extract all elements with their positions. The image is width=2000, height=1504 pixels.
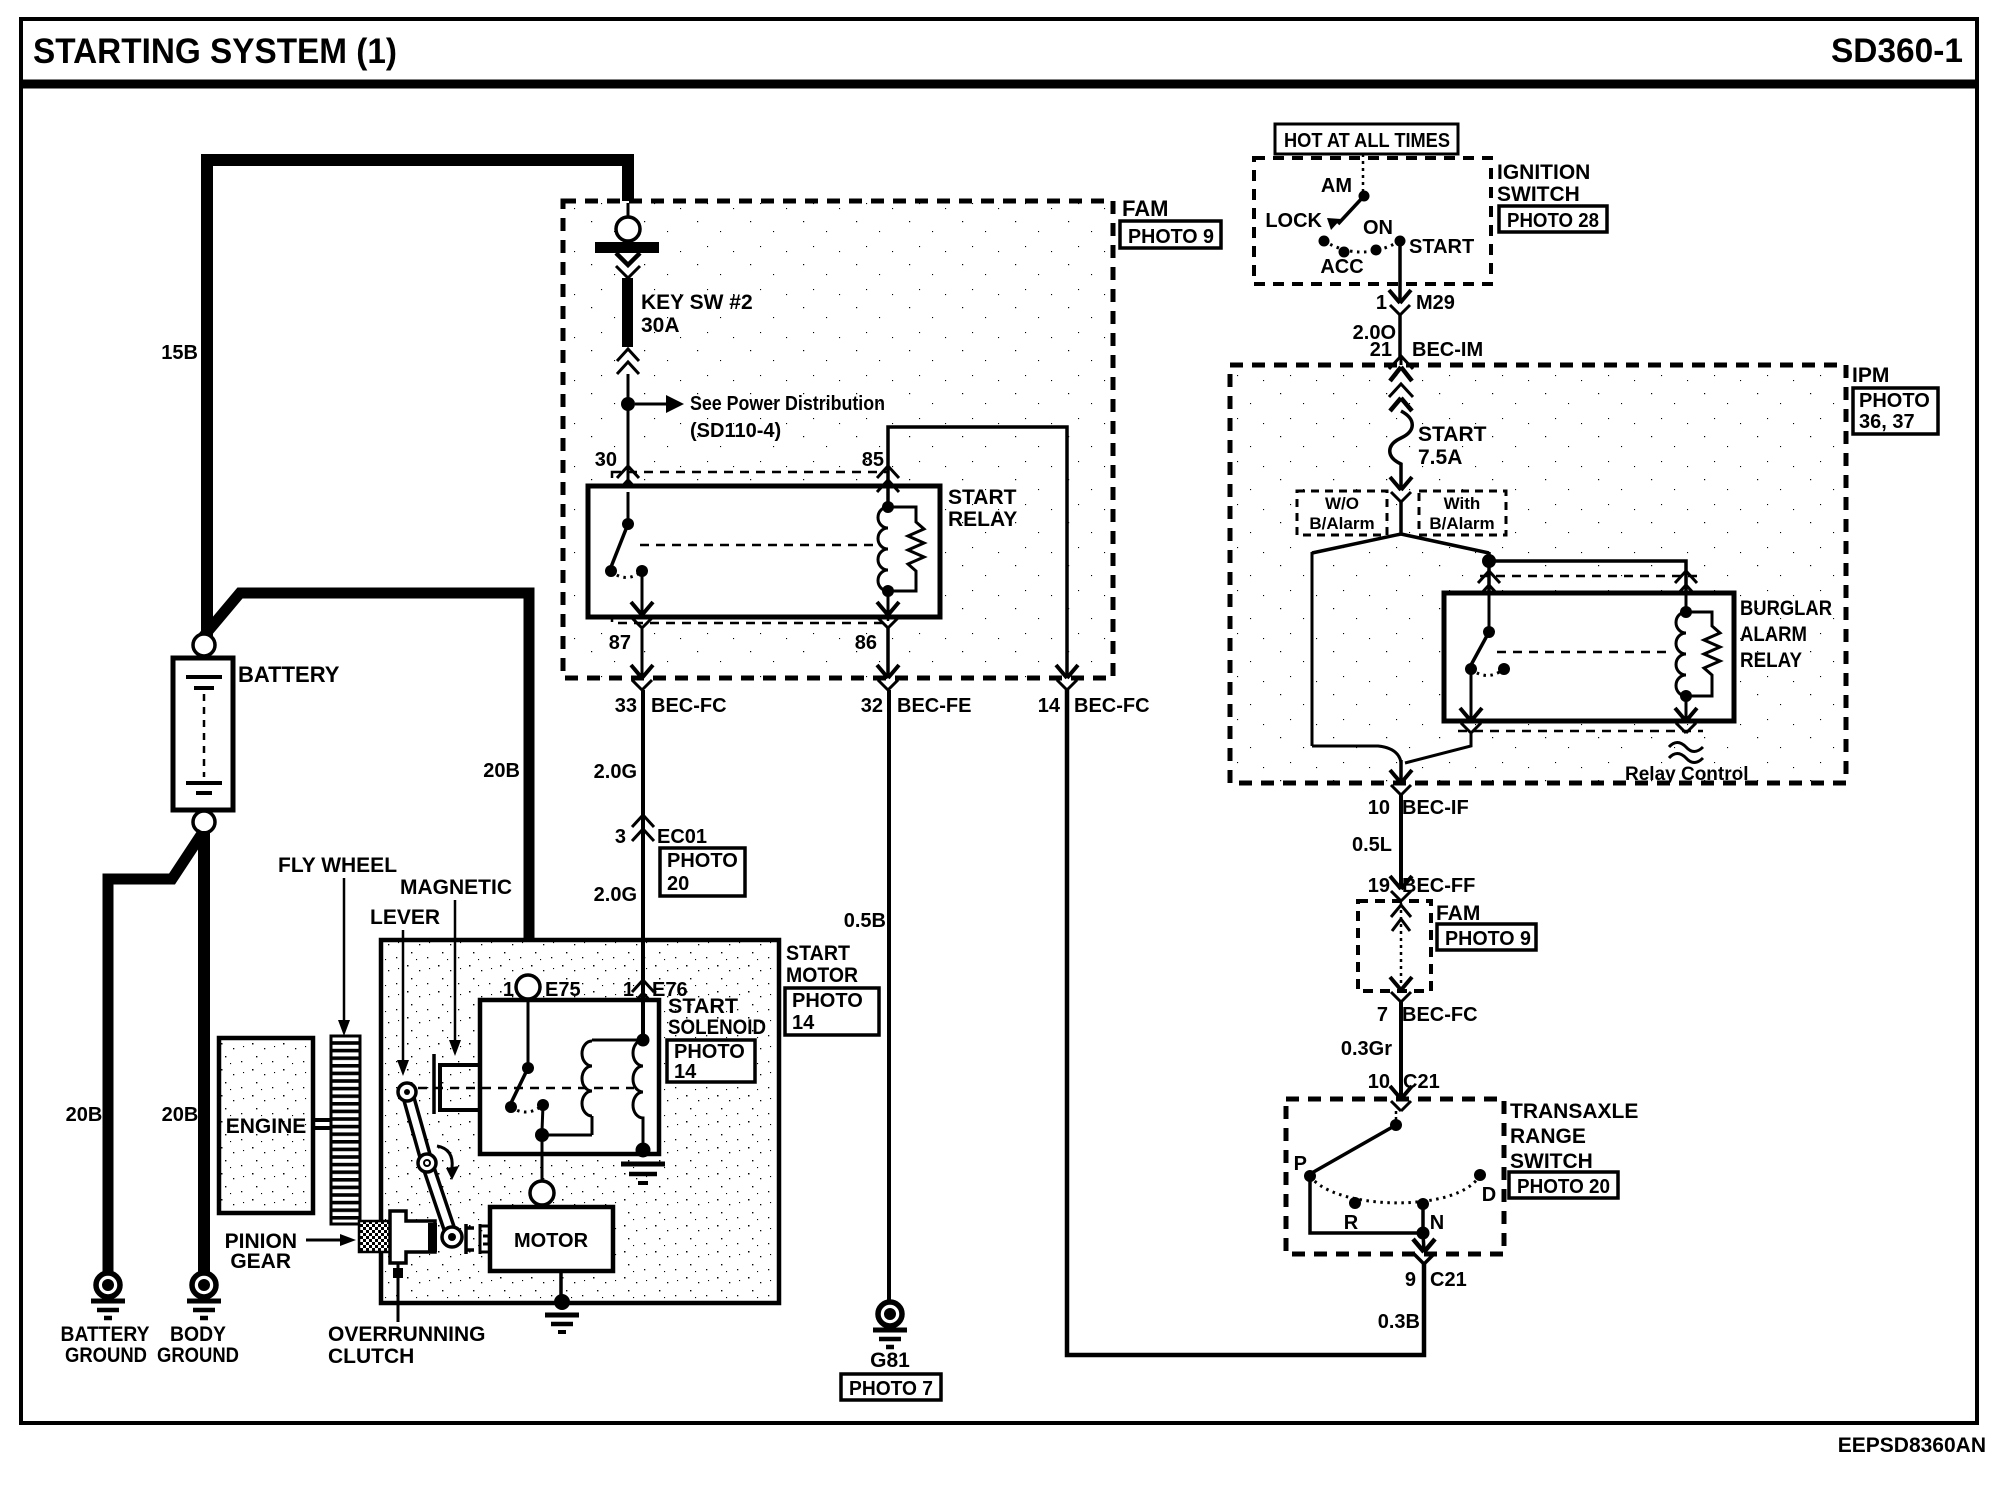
connector burglar switch out arrow [1460,708,1482,721]
wire motor to ground [559,1271,563,1296]
svg-text:PHOTO 9: PHOTO 9 [1445,928,1531,950]
wire 0.5L [1399,795,1403,888]
svg-text:1: 1 [623,979,634,1001]
svg-text:1: 1 [503,979,514,1001]
relay control continuation squiggle [1669,743,1703,763]
relay coil [878,507,888,591]
lever rotation arrow [437,1146,459,1180]
svg-text:SWITCH: SWITCH [1510,1150,1593,1173]
svg-text:EEPSD8360AN: EEPSD8360AN [1838,1434,1986,1457]
svg-text:GROUND: GROUND [65,1344,147,1367]
connector E75 [516,975,540,999]
svg-text:TRANSAXLE: TRANSAXLE [1510,1100,1638,1123]
svg-text:SOLENOID: SOLENOID [668,1016,766,1039]
start solenoid box [480,1000,659,1154]
svg-text:9: 9 [1405,1269,1416,1291]
connector 7 BEC-FC chevron [1391,992,1411,1002]
svg-text:OVERRUNNING: OVERRUNNING [328,1323,486,1346]
svg-text:PHOTO 7: PHOTO 7 [849,1378,933,1400]
ignition switch box [1254,158,1491,284]
fly wheel [331,1036,360,1224]
wire With branch [1487,552,1491,558]
wire 15B battery to key switch (thick) [207,160,628,636]
svg-text:See Power Distribution: See Power Distribution [690,393,885,415]
photo ref box PHOTO 36 37 [1853,388,1938,434]
wire 2.0G to E76 [641,690,645,1040]
ignition positions dotted arc [1324,241,1400,252]
svg-text:RELAY: RELAY [1740,649,1802,672]
leader arrow see power distribution [635,395,684,413]
svg-text:2.0G: 2.0G [594,884,637,906]
transaxle selector blade [1310,1125,1396,1174]
svg-text:GROUND: GROUND [157,1344,239,1367]
connector pin 87 chevron [632,618,652,628]
connector burglar coil out chevron [1676,723,1696,733]
option box W/O B/Alarm [1297,491,1387,535]
node solenoid contact right [537,1099,549,1111]
connector chevron below bar [616,266,640,278]
motor M [490,1207,613,1271]
node burglar feed junction [1482,554,1496,568]
svg-text:PHOTO: PHOTO [1859,390,1930,412]
svg-text:PHOTO 9: PHOTO 9 [1128,226,1214,248]
svg-text:FAM: FAM [1122,196,1168,221]
burglar relay connector dashed bottom [1458,730,1703,733]
fuse exit arrow [1390,477,1412,490]
relay resistor [888,507,924,591]
node ON position [1371,245,1382,256]
wire 87 to BEC-FC 33 [641,628,644,677]
mechanical link dashed (solenoid) [418,1087,634,1090]
clutch output collar [466,1224,489,1254]
node motor terminal [530,1181,554,1205]
burglar alarm relay box [1444,593,1734,721]
svg-text:START: START [1409,236,1474,258]
connector pin 86 chevron [878,618,898,628]
svg-text:Relay Control: Relay Control [1625,764,1749,785]
node battery negative terminal [193,811,215,833]
photo ref box PHOTO 14 (start motor) [785,988,879,1035]
wire P to N link [1310,1176,1424,1233]
svg-text:AM: AM [1321,175,1352,197]
svg-text:(SD110-4): (SD110-4) [690,420,781,442]
svg-text:BEC-FF: BEC-FF [1402,875,1475,897]
photo ref box PHOTO 14 (solenoid) [667,1040,755,1083]
svg-text:ACC: ACC [1320,256,1363,278]
svg-text:E75: E75 [545,979,581,1001]
FAM module box [563,201,1113,678]
connector pin 30 chevrons [617,466,639,492]
burglar switch blade [1471,632,1489,665]
node relay contact left [605,565,617,577]
connector E76 chevrons [632,980,654,1005]
leader arrow magnetic [449,900,461,1056]
burglar relay resistor [1686,612,1720,696]
svg-text:IGNITION: IGNITION [1497,161,1590,184]
ground solenoid ground [621,1164,665,1183]
connector 33 BEC-FC chevron [632,680,652,690]
connector pin 87 arrow [631,602,653,615]
svg-text:0.5B: 0.5B [844,910,886,932]
hold-in coil [633,1040,643,1146]
ground battery ground [91,1273,125,1318]
node ACC position [1339,247,1350,258]
wire relay pin30 internal [627,492,630,520]
node D position [1474,1169,1486,1181]
svg-text:GEAR: GEAR [230,1250,291,1273]
wire 20B to battery ground (thick) [108,832,203,1272]
svg-text:BODY: BODY [170,1323,226,1346]
svg-text:1: 1 [1376,292,1387,314]
wire burglar switch feed [1487,561,1491,593]
label HOT AT ALL TIMES [1275,124,1458,154]
wire N junction down [1423,1233,1424,1251]
svg-text:20B: 20B [483,760,520,782]
wire 20B to body ground (thick) [198,831,210,1272]
svg-text:B/Alarm: B/Alarm [1429,514,1494,533]
burglar mechanical dashed link [1497,651,1666,654]
svg-text:30: 30 [595,449,617,471]
connector 9 C21 chevron [1414,1254,1434,1264]
transaxle range switch box [1286,1099,1504,1254]
svg-text:START: START [668,995,738,1018]
svg-text:14: 14 [674,1061,697,1083]
node solenoid output junction [535,1128,549,1142]
burglar relay connector dashed top [1480,575,1698,578]
svg-text:D: D [1482,1184,1496,1206]
transaxle positions dotted arc [1310,1175,1480,1203]
svg-text:PHOTO: PHOTO [674,1041,745,1063]
connector 3 EC01 chevrons [632,815,654,841]
connector arrow below bar [616,253,640,265]
svg-text:RELAY: RELAY [948,508,1017,531]
svg-text:P: P [1294,1153,1307,1175]
connector 10 C21 arrow [1390,1086,1412,1099]
node burglar switch pivot [1483,626,1495,638]
connector 10 BEC-IF arrow [1390,770,1412,783]
svg-text:SWITCH: SWITCH [1497,183,1580,206]
svg-text:START: START [948,486,1017,509]
svg-text:33: 33 [615,695,637,717]
svg-text:C21: C21 [1430,1269,1467,1291]
connector 1 M29 arrow [1389,290,1411,303]
svg-text:7: 7 [1377,1004,1388,1026]
node N junction [1417,1227,1430,1240]
wire key switch feed [627,203,630,217]
svg-text:EC01: EC01 [657,826,707,848]
svg-text:19: 19 [1368,875,1390,897]
svg-text:KEY SW #2: KEY SW #2 [641,291,753,314]
ground body ground [187,1273,221,1318]
wire FAM pass-through dotted [1400,903,1403,989]
wire branch merge [1312,746,1401,762]
svg-text:ENGINE: ENGINE [226,1115,307,1138]
node N position [1417,1198,1429,1210]
fuse KEY SW #2 30A element [622,278,633,347]
svg-text:20: 20 [667,873,689,895]
node burglar coil top [1680,606,1692,618]
pull-in coil [582,1041,592,1135]
svg-text:FLY WHEEL: FLY WHEEL [278,854,397,877]
photo ref box PHOTO 20 (EC01) [660,848,745,896]
wire 20B battery to E75 (thick) [203,593,529,977]
svg-text:BATTERY: BATTERY [61,1323,150,1346]
connector burglar switch pin chevrons [1478,571,1500,597]
solenoid switch blade [511,1068,528,1103]
wire E76 into solenoid [642,1003,645,1040]
node relay coil top [882,501,894,513]
connector 14 BEC-FC chevron [1057,680,1077,690]
svg-text:86: 86 [855,632,877,654]
svg-text:MOTOR: MOTOR [786,964,858,987]
svg-text:3: 3 [615,826,626,848]
svg-text:N: N [1430,1212,1444,1234]
svg-text:85: 85 [862,449,884,471]
svg-text:BEC-FC: BEC-FC [1074,695,1150,717]
wire relay 86 internal [887,591,890,614]
connector burglar coil out arrow [1675,708,1697,721]
wire coil top link [592,1039,643,1042]
node solenoid switch pivot [522,1062,534,1074]
wire E75 into solenoid switch [527,999,530,1064]
photo ref box PHOTO 7 (G81) [841,1374,941,1400]
node burglar contact left [1465,663,1477,675]
wire burglar coil internal top [1685,593,1688,610]
svg-text:G81: G81 [870,1349,910,1372]
svg-text:87: 87 [609,632,631,654]
svg-text:ON: ON [1363,217,1393,239]
svg-text:20B: 20B [162,1104,199,1126]
lever arm [398,1083,462,1247]
svg-text:BEC-IM: BEC-IM [1412,339,1483,361]
wire W/O branch [1311,552,1314,746]
svg-text:7.5A: 7.5A [1418,446,1462,469]
start motor assembly box [381,940,779,1303]
svg-text:10: 10 [1368,1071,1390,1093]
svg-text:20B: 20B [66,1104,103,1126]
relay mechanical dashed link [640,544,876,547]
svg-text:HOT AT ALL TIMES: HOT AT ALL TIMES [1284,130,1450,152]
start relay box [588,486,940,617]
leader arrow lever [397,930,409,1076]
magnetic plunger [434,1054,494,1114]
svg-text:LOCK: LOCK [1265,210,1322,232]
solenoid contact dotted arc [511,1105,543,1112]
connector 33 BEC-FC arrow [631,665,653,678]
svg-text:PHOTO: PHOTO [792,990,863,1012]
fuse START 7.5A [1390,411,1413,489]
svg-text:FAM: FAM [1436,902,1480,925]
wire branch split [1312,502,1489,553]
svg-text:36, 37: 36, 37 [1859,411,1915,433]
connector burglar coil pin chevrons [1675,571,1697,597]
overrunning clutch body [390,1211,437,1263]
burglar relay coil [1676,612,1686,696]
pinion gear [359,1221,392,1252]
fusible link bar [595,242,659,253]
svg-text:W/O: W/O [1325,494,1359,513]
wire burglar switch output [1470,669,1473,720]
svg-text:BEC-IF: BEC-IF [1402,797,1469,819]
connector 10 BEC-IF chevron [1391,785,1411,795]
node burglar coil bottom [1680,690,1692,702]
leader arrow fly wheel [338,878,350,1036]
svg-text:SD360-1: SD360-1 [1831,32,1963,70]
node burglar contact right [1498,663,1510,675]
wire burglar switch internal [1488,593,1491,628]
ignition key blade [1327,196,1364,230]
connector 1 M29 chevron [1390,305,1410,315]
svg-text:BEC-FC: BEC-FC [651,695,727,717]
svg-text:START: START [1418,423,1487,446]
wire IPM exit [1399,760,1403,782]
wire burglar out merge [1405,733,1471,763]
connector pin 85 chevrons [877,466,899,492]
wire junction to motor [541,1135,544,1181]
connector 19 BEC-FF chevron [1391,891,1411,901]
wire transaxle entry dotted [1395,1111,1398,1121]
wire hot feed dotted [1362,154,1365,192]
battery B1 [173,658,233,810]
node relay coil bottom [882,585,894,597]
node relay contact right [636,565,648,577]
svg-text:B/Alarm: B/Alarm [1309,514,1374,533]
node AM terminal [1359,191,1370,202]
svg-text:R: R [1344,1212,1359,1234]
node START position [1395,236,1406,247]
svg-text:14: 14 [792,1012,815,1034]
svg-text:IPM: IPM [1852,364,1889,387]
wire 86 to BEC-FE 32 [886,628,890,677]
svg-text:ALARM: ALARM [1740,623,1807,646]
svg-text:M29: M29 [1416,292,1455,314]
fuse exit double chevron [617,349,639,374]
node LOCK position [1319,236,1330,247]
svg-text:RANGE: RANGE [1510,1125,1586,1148]
wire contact to junction [542,1105,543,1131]
photo ref box PHOTO 9 (FAM) [1120,221,1221,248]
svg-text:With: With [1444,494,1481,513]
leader arrow pinion gear [306,1234,356,1246]
svg-text:10: 10 [1368,797,1390,819]
clutch leader block [393,1268,403,1278]
svg-text:15B: 15B [161,342,198,364]
wire burglar coil feed [1489,561,1686,593]
wire 0.5B to G81 [887,690,891,1302]
node solenoid ground junction [636,1143,651,1158]
node transaxle input [1390,1119,1402,1131]
svg-text:BEC-FE: BEC-FE [897,695,971,717]
node coil top junction [637,1034,650,1047]
wire overrunning clutch leader [397,1263,400,1322]
connector 19 BEC-FF arrow [1390,876,1412,889]
ground motor ground [545,1315,579,1332]
wire N output [1421,1204,1425,1233]
IPM module box [1230,365,1846,783]
svg-text:32: 32 [861,695,883,717]
svg-text:2.0G: 2.0G [594,761,637,783]
connector 21 BEC-IM entry chevrons [1389,356,1413,369]
photo ref box PHOTO 9 (pass-through) [1437,924,1536,950]
photo ref box PHOTO 28 [1499,206,1607,232]
node motor ground junction [554,1294,570,1310]
svg-text:14: 14 [1038,695,1061,717]
connector FAM pass-through bottom arrow [1390,977,1412,990]
ground G81 [873,1302,907,1347]
start relay connector dashed outline [612,472,888,623]
title separator bar [21,80,1977,89]
svg-text:START: START [786,942,850,965]
photo ref box PHOTO 20 (transaxle) [1509,1172,1618,1198]
svg-text:30A: 30A [641,314,680,337]
wire relay coil 85 loop to 14 BEC-FC [888,427,1067,677]
FAM pass-through box [1358,901,1431,991]
node power distribution tap [621,397,635,411]
wire junction to pull-in coil [542,1134,592,1137]
svg-text:PHOTO 20: PHOTO 20 [1517,1176,1610,1198]
connector 14 BEC-FC arrow [1056,665,1078,678]
svg-text:PHOTO 28: PHOTO 28 [1507,210,1599,232]
option box With B/Alarm [1419,491,1506,535]
connector FAM pass-through top chevrons [1391,905,1411,931]
connector 10 C21 chevron [1391,1101,1411,1111]
svg-text:0.5L: 0.5L [1352,834,1392,856]
node R position [1349,1197,1361,1209]
node key switch connector [616,217,640,241]
wire coil top internal [887,492,890,505]
engine block [219,1038,313,1213]
svg-text:BATTERY: BATTERY [238,662,340,687]
svg-text:MAGNETIC: MAGNETIC [400,876,512,899]
burglar contact dotted arc [1471,669,1504,676]
connector 32 BEC-FE arrow [877,665,899,678]
node relay switch pivot [622,518,634,530]
connector 32 BEC-FE chevron [878,680,898,690]
svg-text:0.3B: 0.3B [1378,1311,1420,1333]
wire fuse to relay pin 30 [627,374,630,520]
wire ignition output [1398,241,1402,302]
svg-text:STARTING SYSTEM (1): STARTING SYSTEM (1) [33,32,397,71]
svg-text:CLUTCH: CLUTCH [328,1345,414,1368]
svg-text:21: 21 [1370,339,1392,361]
connector burglar switch out chevron [1461,723,1481,733]
node P position [1304,1170,1316,1182]
wire 2.0O [1398,315,1402,357]
wire relay 87 internal [641,571,644,614]
svg-text:MOTOR: MOTOR [514,1230,589,1252]
svg-text:0.3Gr: 0.3Gr [1341,1038,1392,1060]
connector 9 C21 arrow [1413,1239,1435,1252]
node battery positive terminal [193,634,215,656]
wire burglar coil out [1685,696,1688,719]
wire 14 BEC-FC to transaxle 0.3B run [1067,690,1424,1355]
relay switch blade [611,524,628,567]
svg-text:BURGLAR: BURGLAR [1740,597,1832,620]
node solenoid contact left [505,1101,517,1113]
relay contact dotted arc [611,571,642,578]
wire 0.3Gr [1399,1002,1403,1098]
engine output shaft [313,1120,333,1128]
connector pin 86 arrow [877,602,899,615]
fuse exit chevron [1391,492,1411,502]
svg-text:LEVER: LEVER [370,906,440,929]
svg-text:BEC-FC: BEC-FC [1402,1004,1478,1026]
svg-text:PHOTO: PHOTO [667,850,738,872]
